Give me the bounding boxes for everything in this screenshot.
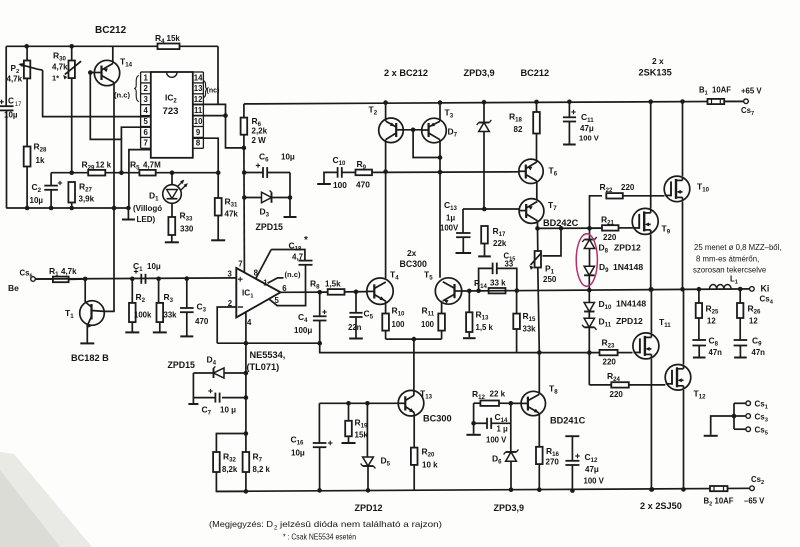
svg-text:ZPD12: ZPD12 <box>616 316 643 326</box>
capacitor C5 22n <box>348 290 374 339</box>
svg-text:220: 220 <box>621 183 635 192</box>
svg-text:4,7k: 4,7k <box>7 75 23 84</box>
svg-text:BC182 B: BC182 B <box>71 353 109 363</box>
node T1 base <box>83 277 88 282</box>
zener D5 ZPD12 <box>361 403 391 492</box>
svg-text:2SK135: 2SK135 <box>639 68 672 78</box>
resistor R11 100 <box>421 306 445 340</box>
resistor R8 1.5k <box>310 279 367 295</box>
terminal Ki <box>750 284 774 306</box>
wire T7 emitter rail <box>535 226 602 231</box>
svg-text:C: C <box>8 97 14 106</box>
wire output rail <box>462 289 752 291</box>
capacitor C12 47u <box>565 436 604 493</box>
svg-text:BD241C: BD241C <box>550 416 586 426</box>
capacitor C6 10u <box>244 152 295 178</box>
wire op-amp pin2 jog <box>217 307 236 343</box>
svg-text:100 V: 100 V <box>579 134 600 143</box>
trimmer P1 250 <box>530 228 561 352</box>
svg-text:1 μ: 1 μ <box>497 425 509 434</box>
svg-text:ZPD3,9: ZPD3,9 <box>494 503 525 513</box>
terminal Cs6 Be <box>8 269 35 294</box>
wire IC2 pin9 to R31 <box>193 138 221 175</box>
label 2x BC300 <box>400 248 427 269</box>
svg-text:1μ: 1μ <box>446 214 455 223</box>
svg-text:10µ: 10µ <box>4 111 18 120</box>
wire T13 base line C <box>319 401 397 406</box>
resistor R13 1.5k <box>463 289 494 339</box>
terminals Cs1 Cs3 Cs5 <box>704 400 769 437</box>
svg-text:* : Csak NE5534 esetén: * : Csak NE5534 esetén <box>283 533 356 542</box>
resistor R2 100k <box>125 279 152 333</box>
op-amp regulator IC2 723 <box>141 72 204 158</box>
capacitor C10 100 <box>317 155 355 190</box>
note line 2 <box>283 533 356 542</box>
capacitor C9 47n <box>734 336 766 358</box>
svg-text:12: 12 <box>194 95 203 104</box>
zener D7 <box>448 100 492 209</box>
node C1 right <box>156 277 161 282</box>
wire ground rail mid-left <box>6 207 128 209</box>
mosfet T9 <box>632 99 671 291</box>
capacitor C13 1u 100V <box>440 200 471 253</box>
wire T1 collector up to T14 emitter <box>104 83 116 312</box>
svg-text:11: 11 <box>194 106 203 115</box>
node rail R26 <box>738 287 743 292</box>
wire T7 base to C13 <box>463 207 519 212</box>
zener D3 ZPD15 <box>244 191 290 219</box>
svg-text:4,7M: 4,7M <box>143 161 161 170</box>
svg-text:1N4148: 1N4148 <box>616 299 646 309</box>
wire line B start <box>320 343 600 352</box>
svg-text:47n: 47n <box>752 348 766 357</box>
capacitor C7 10u <box>193 389 248 417</box>
svg-text:12: 12 <box>707 317 716 326</box>
svg-text:2x: 2x <box>407 248 417 258</box>
svg-text:270: 270 <box>546 458 560 467</box>
resistor R14 33k <box>474 278 506 293</box>
transistor T2 <box>369 100 404 174</box>
svg-text:4,7: 4,7 <box>292 253 304 262</box>
node C15-R15 <box>515 288 520 293</box>
resistor R26 12 <box>737 289 761 340</box>
node bottom rail T11 <box>650 487 655 492</box>
svg-text:7: 7 <box>238 260 242 269</box>
capacitor C1 10u <box>133 261 161 284</box>
svg-text:*: * <box>304 235 308 246</box>
svg-text:100μ: 100μ <box>294 326 312 335</box>
wire IC2 pin12-11 to R6 node <box>193 104 244 147</box>
note line 1 <box>209 520 442 532</box>
svg-text:2 W: 2 W <box>252 136 267 145</box>
svg-text:10 k: 10 k <box>422 461 438 470</box>
svg-text:100: 100 <box>333 180 347 190</box>
svg-text:2: 2 <box>144 84 149 93</box>
svg-text:(Megjegyzés: D: (Megjegyzés: D <box>209 520 273 529</box>
wire R22 from T7 rail <box>590 196 603 228</box>
capacitor C16 10u <box>291 403 333 492</box>
resistor R6 2.2k 2W <box>241 104 268 150</box>
svg-text:33k: 33k <box>164 311 178 320</box>
svg-text:2 x BC212: 2 x BC212 <box>384 68 428 78</box>
wire input run <box>35 278 236 279</box>
wire op-amp output <box>281 291 328 293</box>
svg-text:2,2k: 2,2k <box>252 127 268 136</box>
svg-text:47k: 47k <box>225 210 239 219</box>
wire main top rail <box>244 101 746 104</box>
svg-text:3: 3 <box>144 95 149 104</box>
resistor R12 22k <box>472 389 521 406</box>
capacitor C3 470 <box>180 279 209 337</box>
svg-text:22n: 22n <box>348 323 362 332</box>
svg-text:2 x: 2 x <box>652 56 664 66</box>
label NE5534 TL071 <box>247 350 286 372</box>
node D3 left <box>242 195 247 200</box>
wire T14 base down to pin6 jog <box>90 73 121 173</box>
svg-text:(TL071): (TL071) <box>247 362 280 372</box>
terminal Cs2 -65V <box>704 475 766 508</box>
svg-text:10μ: 10μ <box>291 449 305 458</box>
node rail R25 <box>697 287 702 292</box>
resistor R16 270 <box>536 446 560 492</box>
wire pin2 node line A <box>217 341 320 346</box>
terminal Cs7 +65V <box>699 86 762 118</box>
svg-text:ZPD3,9: ZPD3,9 <box>464 68 495 78</box>
svg-text:723: 723 <box>163 106 179 117</box>
svg-text:10AF: 10AF <box>712 86 731 95</box>
resistor R5 4.7M <box>130 160 218 176</box>
label BC212 top-left <box>95 25 127 36</box>
svg-text:szorosan tekercselve: szorosan tekercselve <box>693 266 766 275</box>
svg-text:100V: 100V <box>440 224 459 233</box>
resistor R28 <box>24 142 47 211</box>
resistor R33 <box>165 211 194 243</box>
svg-text:LED): LED) <box>137 215 156 224</box>
svg-text:Be: Be <box>8 283 19 293</box>
zener D11 ZPD12 <box>582 316 643 385</box>
svg-text:470: 470 <box>195 317 209 326</box>
svg-text:Ki: Ki <box>761 284 770 294</box>
svg-text:BC212: BC212 <box>95 25 127 36</box>
wire R9 to T6 base <box>372 171 519 174</box>
svg-text:6: 6 <box>144 128 149 137</box>
transistor T7 BD242C <box>519 199 579 229</box>
svg-text:1*: 1* <box>52 74 59 83</box>
resistor R17 22k <box>478 226 507 256</box>
node C6 left <box>242 170 247 175</box>
svg-text:1k: 1k <box>36 156 45 165</box>
svg-text:220: 220 <box>603 358 617 367</box>
wire D4-C7 left leg <box>188 373 198 404</box>
label ZPD12 bottom-left <box>355 503 383 513</box>
wire T2-T3 bases <box>403 128 442 160</box>
svg-text:ZPD15: ZPD15 <box>168 360 195 370</box>
svg-text:470: 470 <box>356 180 370 190</box>
node C3 top <box>185 276 190 281</box>
label BD241C <box>550 416 586 426</box>
wire top-left rail <box>6 45 218 47</box>
zener D4 ZPD15 <box>168 355 249 379</box>
svg-text:13: 13 <box>194 84 203 93</box>
label BC300 T13 <box>423 414 452 424</box>
svg-text:14: 14 <box>194 73 203 82</box>
svg-text:25 menet ø 0,8 MZZ–ből,: 25 menet ø 0,8 MZZ–ből, <box>694 243 782 252</box>
svg-text:100 V: 100 V <box>486 436 507 445</box>
svg-text:1N4148: 1N4148 <box>613 262 643 272</box>
wire IC2 pin6 jog <box>121 127 150 139</box>
resistor R1 4.7k <box>35 266 85 282</box>
svg-text:1,5 k: 1,5 k <box>476 323 494 332</box>
svg-text:10μ: 10μ <box>147 262 161 271</box>
label coil note <box>693 243 782 275</box>
transistor T8 BD241C <box>521 350 558 447</box>
diode D10 1N4148 <box>584 290 646 318</box>
resistor R15 33k <box>513 291 536 353</box>
svg-text:15k: 15k <box>355 431 369 440</box>
svg-text:1,5k: 1,5k <box>325 280 341 289</box>
svg-text:+65 V: +65 V <box>741 87 762 96</box>
svg-text:22k: 22k <box>493 239 507 248</box>
mosfet T10 <box>664 99 709 291</box>
svg-text:BC300: BC300 <box>423 414 452 424</box>
resistor R3 33k <box>153 279 177 333</box>
resistor R18 82 <box>509 100 540 160</box>
svg-text:8,2k: 8,2k <box>222 465 238 474</box>
fuse B1 10AF <box>708 99 744 104</box>
svg-text:(Villogó: (Villogó <box>133 204 162 213</box>
svg-text:10μ: 10μ <box>281 153 295 162</box>
svg-text:4: 4 <box>144 106 149 115</box>
svg-text:33k: 33k <box>523 325 537 334</box>
capacitor C15 33 <box>479 252 517 291</box>
capacitor C14 1u 100V <box>466 403 510 451</box>
svg-text:9: 9 <box>196 128 201 137</box>
wire tail to T13 <box>413 339 415 391</box>
transistor T13 BC300 <box>397 389 432 448</box>
resistor R22 220 <box>600 182 665 199</box>
svg-text:22 k: 22 k <box>490 390 506 399</box>
resistor R27 <box>68 170 94 210</box>
resistor R29 12k <box>51 160 139 176</box>
svg-text:NE5534,: NE5534, <box>250 350 286 360</box>
node D1 top <box>170 170 175 175</box>
node T14 base <box>88 70 93 75</box>
wire R6 node down to op-amp pin7 <box>243 148 246 273</box>
label 2x 2SK135 <box>639 56 672 78</box>
svg-text:12 k: 12 k <box>96 161 112 170</box>
label (nc) left pins <box>114 76 139 102</box>
wire IC2 pin7 to ground rail <box>122 150 151 220</box>
svg-text:10µ: 10µ <box>30 196 44 205</box>
label 2x BC212 <box>384 68 428 78</box>
transistor T6 <box>519 159 558 199</box>
node on rail P2 <box>24 44 29 49</box>
resistor R25 12 <box>696 289 719 339</box>
svg-text:jelzésû dióda nem található a: jelzésû dióda nem található a rajzon) <box>279 520 443 529</box>
capacitor C4 100u <box>294 292 327 345</box>
svg-text:12: 12 <box>749 317 758 326</box>
svg-text:(n.c): (n.c) <box>285 270 302 279</box>
svg-text:(nc): (nc) <box>207 88 220 95</box>
svg-text:4,7k: 4,7k <box>61 267 77 276</box>
mosfet T12 <box>665 289 706 492</box>
resistor R31 <box>211 173 238 241</box>
resistor R19 15k <box>342 403 369 443</box>
wire P2 wiper to IC2 pin5 <box>43 70 151 117</box>
svg-text:ZPD15: ZPD15 <box>256 222 283 232</box>
zener D6 ZPD39 <box>492 450 518 493</box>
svg-text:3: 3 <box>228 270 233 279</box>
resistor R23 220 <box>600 338 633 367</box>
svg-text:47μ: 47μ <box>580 124 594 133</box>
svg-text:47n: 47n <box>709 348 723 357</box>
svg-text:47μ: 47μ <box>585 465 599 474</box>
label ZPD15 for D3 <box>256 222 283 232</box>
node R5 left <box>119 170 124 175</box>
inductor L1 <box>710 275 738 289</box>
svg-text:7: 7 <box>144 139 148 148</box>
label (nc) right pins <box>203 81 219 98</box>
label 2x 2SJ50 <box>640 501 682 511</box>
resistor R20 10k <box>411 447 438 491</box>
resistor R21 220 <box>590 215 633 243</box>
svg-text:17: 17 <box>15 102 22 108</box>
label BC212 mid <box>521 68 550 78</box>
svg-text:8: 8 <box>196 139 201 148</box>
annotation pink ellipse <box>576 234 597 287</box>
svg-text:220: 220 <box>603 233 617 242</box>
capacitor C2 <box>30 173 63 211</box>
svg-text:10 μ: 10 μ <box>220 406 236 415</box>
capacitor C11 47u <box>563 100 600 145</box>
resistors R32 R7 parallel <box>213 431 270 494</box>
zener D8 ZPD12 <box>582 228 641 266</box>
LED D1 <box>149 173 187 217</box>
svg-text:BC300: BC300 <box>400 259 427 269</box>
svg-text:10: 10 <box>194 117 203 126</box>
transistor T5 <box>424 270 462 314</box>
svg-text:100k: 100k <box>134 311 152 320</box>
svg-text:100: 100 <box>421 320 435 329</box>
wire C6-D3 right leg <box>284 173 297 218</box>
transistor T1 BC182B <box>65 279 104 344</box>
svg-text:100 V: 100 V <box>584 477 605 486</box>
diode D9 1N4148 <box>584 262 643 292</box>
svg-text:8 mm-es átmérőn,: 8 mm-es átmérőn, <box>696 255 759 264</box>
wire pin4 vertical <box>245 313 247 434</box>
capacitor C18 4.7 <box>256 235 313 292</box>
svg-text:ZPD12: ZPD12 <box>614 243 641 253</box>
trimmer R30 <box>52 46 81 172</box>
label BC182B <box>71 353 109 363</box>
svg-text:2 x 2SJ50: 2 x 2SJ50 <box>640 501 682 511</box>
scanner shadow bottom-left <box>0 452 92 547</box>
resistor R10 100 <box>382 306 405 340</box>
wire left vertical to C17 <box>5 46 7 106</box>
svg-text:33 k: 33 k <box>490 279 506 288</box>
wire bottom rail <box>216 488 752 491</box>
fuse B2 10AF <box>710 486 728 491</box>
svg-text:4,7k: 4,7k <box>52 63 68 72</box>
resistor R4 15k <box>155 33 180 49</box>
svg-text:8,2 k: 8,2 k <box>253 465 271 474</box>
svg-text:–65 V: –65 V <box>744 497 765 506</box>
node rail R30 <box>69 44 74 49</box>
potentiometer P2 <box>7 46 43 146</box>
svg-text:1: 1 <box>144 73 149 82</box>
node C4 top <box>317 290 322 295</box>
op-amp IC1 <box>228 260 288 328</box>
capacitor C8 47n <box>692 336 722 358</box>
svg-text:(n.c): (n.c) <box>114 91 131 100</box>
node R2 top <box>130 277 135 282</box>
svg-text:10AF: 10AF <box>715 497 734 506</box>
label nc stub IC1 <box>268 270 302 283</box>
svg-text:15k: 15k <box>167 34 181 43</box>
svg-text:220: 220 <box>610 390 624 399</box>
svg-text:330: 330 <box>180 225 194 234</box>
wire R10-R11 tail bar <box>386 337 442 342</box>
wire rail corner down to IC2 right <box>217 46 219 104</box>
label ZPD39 top <box>464 68 495 78</box>
svg-text:33: 33 <box>505 260 514 269</box>
svg-text:250: 250 <box>543 275 557 284</box>
svg-text:100: 100 <box>392 320 406 329</box>
svg-text:4: 4 <box>247 318 252 327</box>
transistor T14 BC212 <box>90 46 132 85</box>
mosfet T11 <box>633 287 671 492</box>
svg-text:BC212: BC212 <box>521 68 550 78</box>
resistor R9 470 <box>356 159 373 190</box>
resistor R24 220 <box>589 371 665 399</box>
pin5 loop <box>269 292 305 305</box>
label ZPD39 bottom <box>494 503 525 513</box>
capacitor C17 <box>0 97 22 209</box>
svg-text:5: 5 <box>144 117 149 126</box>
svg-text:3,9k: 3,9k <box>79 195 95 204</box>
transistor T3 <box>422 100 454 278</box>
label Villogo LED <box>133 204 162 224</box>
svg-text:ZPD12: ZPD12 <box>355 503 383 513</box>
transistor T4 <box>367 172 399 314</box>
svg-text:82: 82 <box>514 125 523 134</box>
